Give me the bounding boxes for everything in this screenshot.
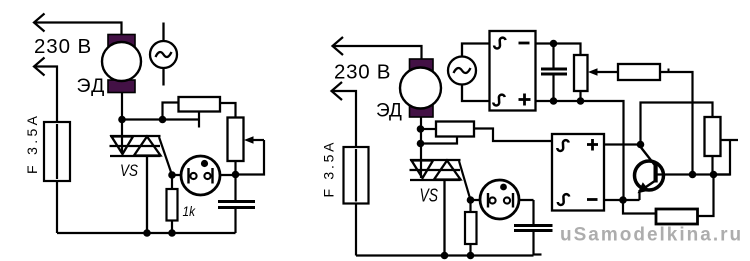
wire motor to node A	[121, 93, 123, 154]
wire VD2 plus to collector	[604, 143, 641, 145]
junction dot rail-triac	[143, 229, 151, 237]
label F 3.5A	[24, 115, 40, 174]
junction dot rail-R2	[168, 229, 176, 237]
R7 tap stub to base rail	[714, 140, 739, 175]
wire R1 right to potentiometer RP1	[220, 103, 236, 118]
svg-text:F 3.5A: F 3.5A	[321, 142, 337, 198]
junction dot R3 tap	[417, 140, 425, 148]
wire R3 right to bridge VD2 input	[474, 129, 552, 142]
fuse F2	[344, 147, 369, 204]
triac VS1 gate wire	[159, 137, 172, 175]
label VS (right)	[420, 186, 439, 206]
label 230 V (right)	[334, 61, 391, 84]
neon lamp HL1	[172, 156, 236, 195]
junction dot R3 left	[417, 125, 425, 133]
label F 3.5A (right)	[321, 142, 337, 198]
wire R6 right to base rail	[698, 175, 714, 217]
wire C1 leads	[234, 208, 236, 234]
wire neutral with arrow (right)	[332, 82, 357, 147]
potentiometer RP1	[228, 118, 244, 162]
bridge rectifier VD1	[490, 31, 536, 111]
wire phase top with arrow (right)	[333, 37, 422, 59]
wire VD1 plus output	[536, 101, 624, 200]
label VS	[120, 161, 139, 180]
bottom rail right	[356, 255, 542, 256]
AC source symbol (right)	[448, 44, 490, 102]
RP2 wiper arrow	[588, 68, 618, 76]
wire base rail	[658, 173, 731, 175]
tick artifact on R5 lead	[668, 69, 670, 73]
fuse F1	[44, 122, 70, 181]
svg-text:ЭД: ЭД	[77, 75, 106, 97]
label ED (right)	[376, 101, 402, 122]
potentiometer RP2	[574, 55, 588, 101]
svg-text:uSamodelkina.ru: uSamodelkina.ru	[560, 225, 743, 246]
svg-text:VS: VS	[420, 186, 439, 206]
svg-text:ЭД: ЭД	[376, 101, 402, 122]
triac VS1	[110, 136, 161, 233]
wire emitter node down to resistor R6	[623, 200, 656, 214]
bridge rectifier VD2	[552, 134, 604, 211]
junction dot plus-cap	[550, 97, 558, 105]
wire collector riser	[641, 103, 713, 145]
neon lamp HL2	[471, 180, 534, 219]
resistor R4	[465, 200, 477, 256]
capacitor C2	[514, 226, 553, 231]
junction dot base-R5	[689, 171, 697, 179]
wire fuse to bottom rail	[56, 181, 58, 233]
resistor R3 center tap stub	[421, 137, 458, 144]
RP1 wiper arrow	[244, 136, 264, 144]
label 230 V	[34, 35, 92, 58]
junction dot B	[159, 116, 167, 124]
motor M2 (ED)	[400, 59, 441, 117]
svg-text:230 В: 230 В	[334, 61, 391, 84]
resistor R6 emitter	[656, 209, 698, 224]
wire VD2 minus to emitter node	[604, 199, 640, 201]
AC source symbol	[150, 23, 177, 86]
junction dot rail2-triac2	[441, 252, 449, 260]
triac VS2 gate wire	[459, 161, 471, 200]
wire riser to resistor R1 left	[163, 103, 179, 120]
motor M1 (ED)	[102, 35, 141, 93]
transistor VT1	[635, 148, 664, 201]
wire R5 right to base rail	[660, 72, 693, 175]
wire motor2 down to triac	[420, 117, 422, 178]
node E junction dot	[467, 196, 475, 204]
junction dot minus-cap	[550, 40, 558, 48]
capacitor C3	[541, 69, 567, 74]
junction dot base-R7	[710, 171, 718, 179]
resistor R2 1k	[167, 175, 178, 233]
watermark	[560, 225, 743, 246]
resistor R5	[618, 64, 660, 80]
wire fuse2 to bottom rail	[355, 204, 357, 256]
triac VS2	[410, 160, 461, 256]
svg-text:VS: VS	[120, 161, 139, 180]
junction dot collector	[637, 141, 645, 149]
wire C2 leads	[532, 200, 534, 255]
junction dot plus-pot	[577, 97, 585, 105]
wire wiper to node C	[236, 140, 265, 175]
bottom rail left	[57, 232, 236, 234]
resistor R3 top	[421, 122, 475, 137]
resistor R7 collector load	[705, 117, 721, 175]
junction dot rail2-R4	[467, 252, 475, 260]
wire VD1 minus output	[536, 44, 581, 56]
label 1k	[183, 204, 197, 219]
wire C3 leads	[552, 44, 554, 102]
label ED	[77, 75, 106, 97]
svg-text:230 В: 230 В	[34, 35, 92, 58]
wire node A to resistor stub	[122, 118, 199, 120]
junction dot emitter node	[619, 196, 627, 204]
capacitor C1	[218, 202, 255, 208]
resistor R1 center tap stub	[198, 112, 200, 128]
node C junction dot	[232, 171, 240, 179]
wire phase top with arrow	[34, 14, 122, 35]
svg-text:1k: 1k	[183, 204, 197, 219]
wire neutral with arrow	[34, 58, 57, 123]
node D junction dot	[168, 171, 176, 179]
node A junction dot	[118, 116, 126, 124]
resistor R1	[179, 97, 221, 112]
wire RP1 bottom to node C	[234, 161, 236, 202]
